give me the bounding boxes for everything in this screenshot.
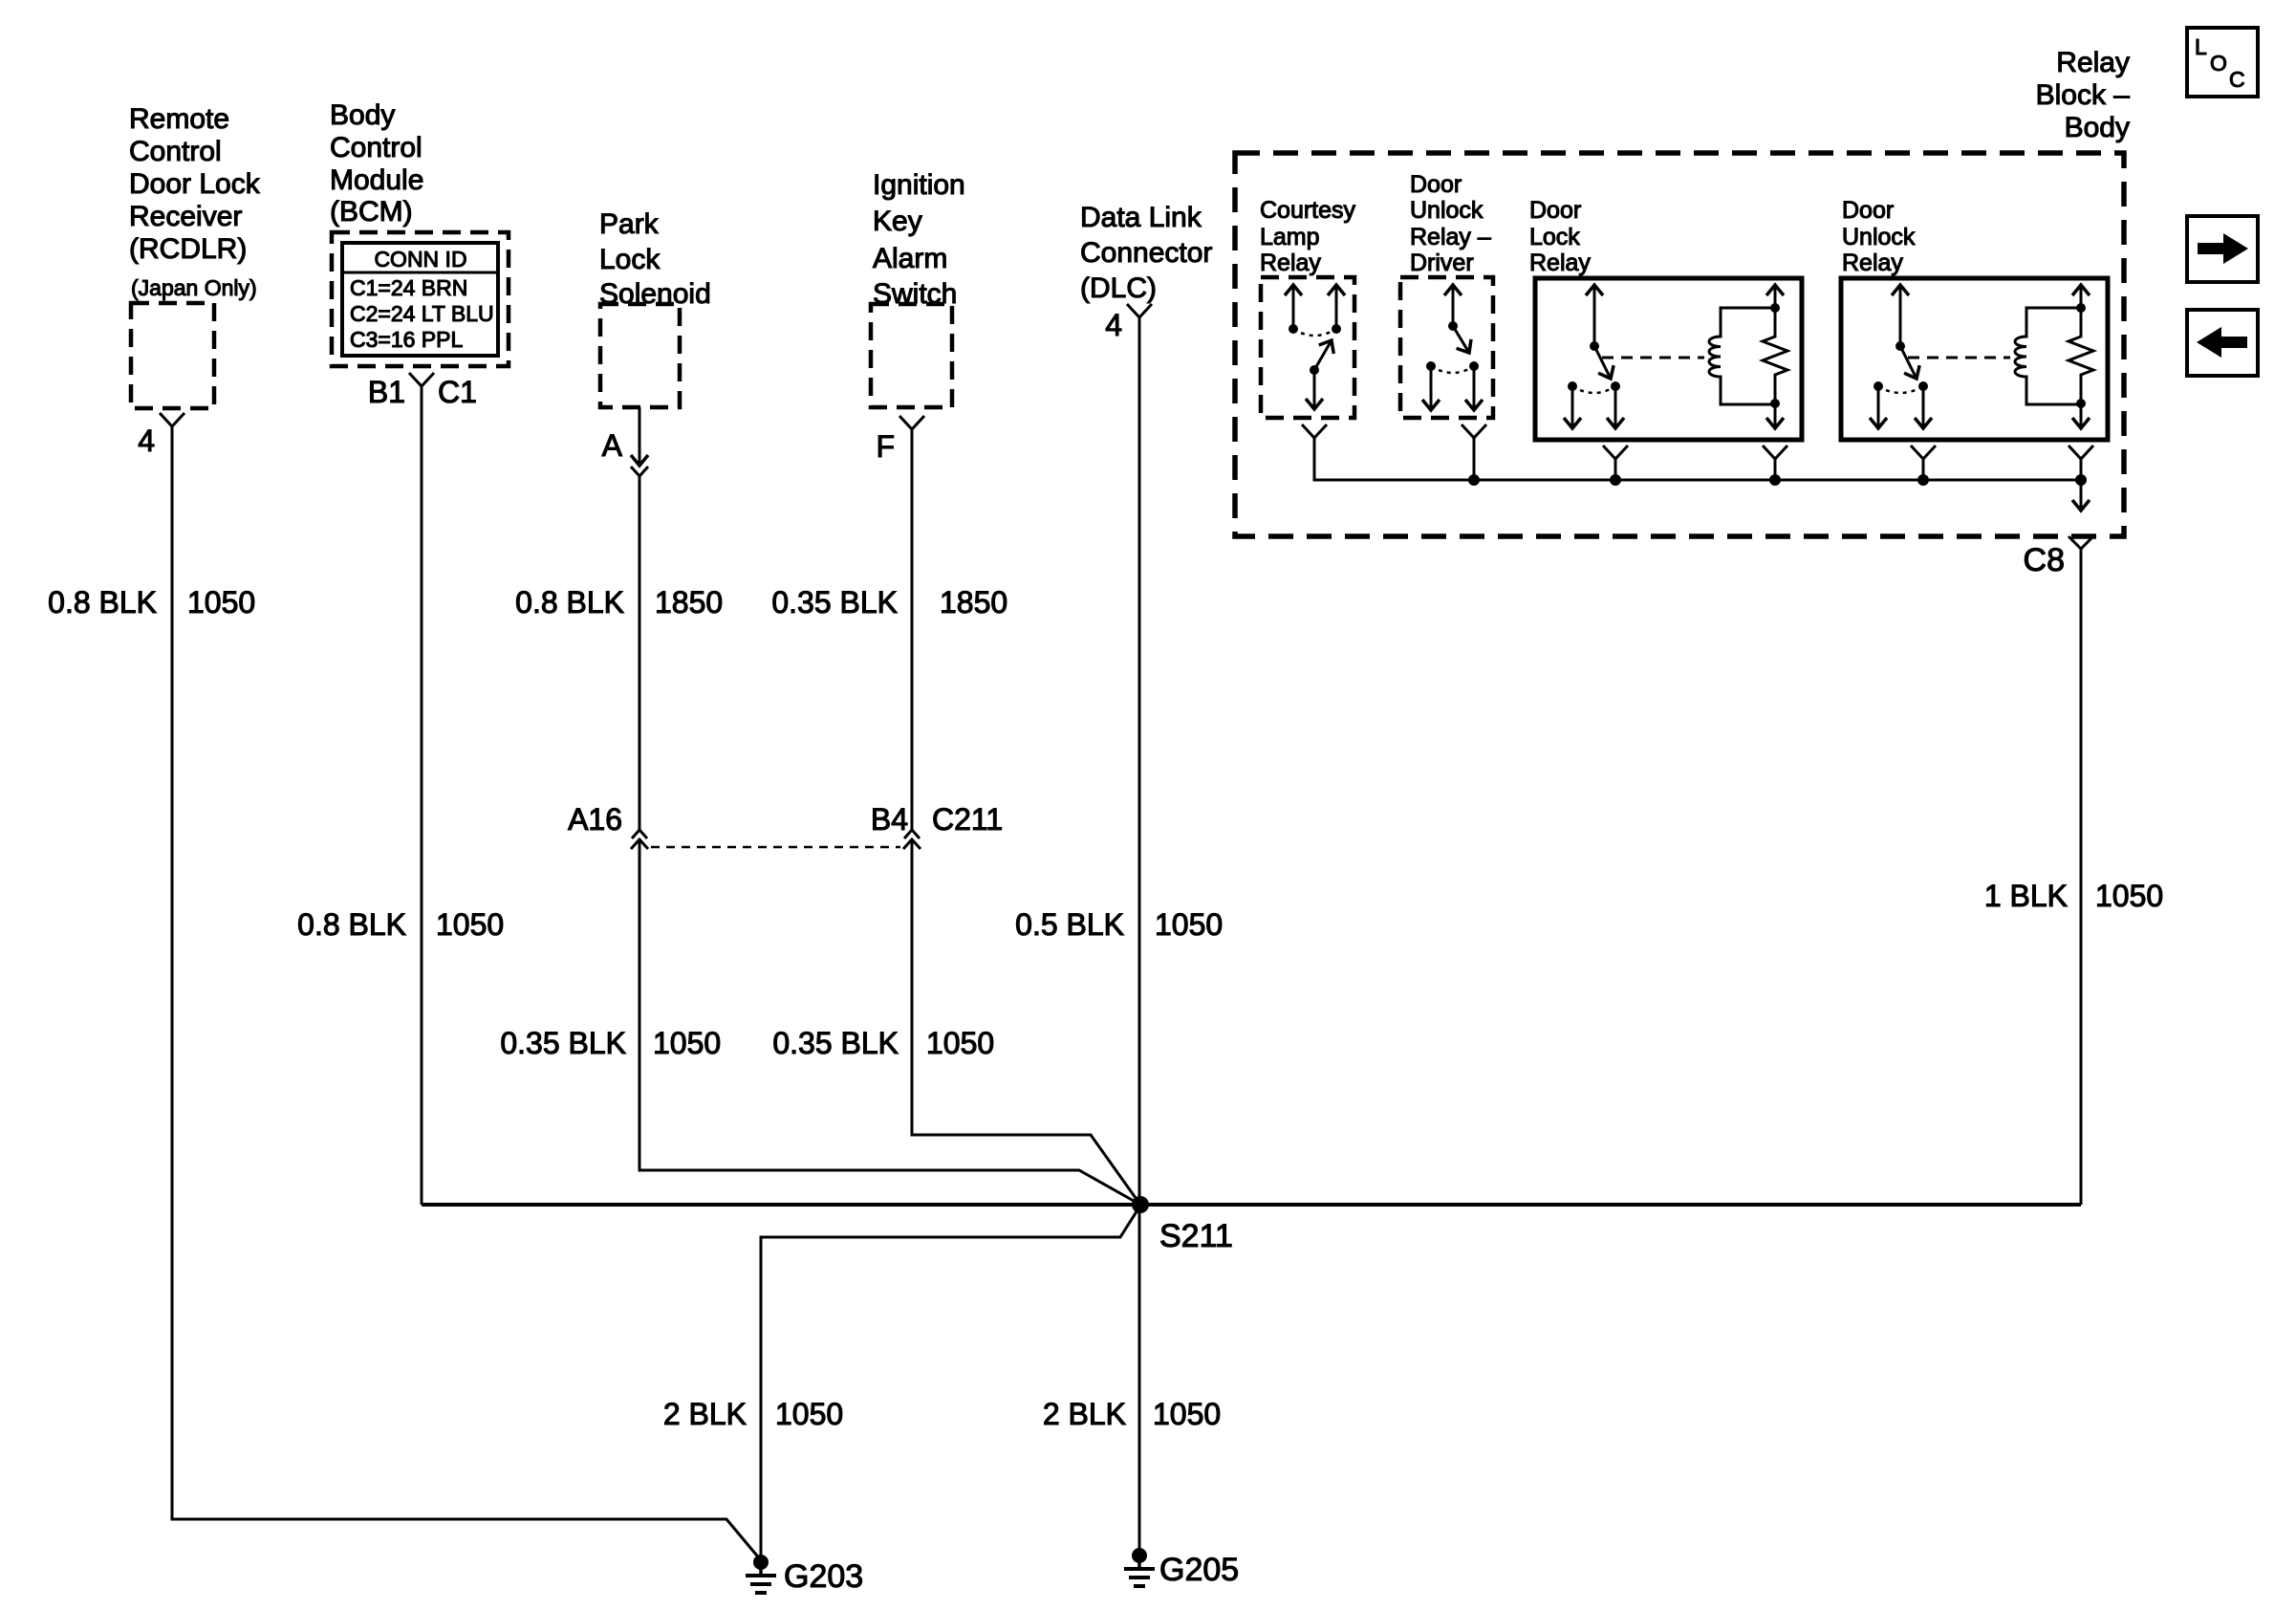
svg-text:Driver: Driver bbox=[1410, 250, 1474, 276]
svg-text:1050: 1050 bbox=[187, 585, 255, 620]
svg-text:1 BLK: 1 BLK bbox=[1984, 879, 2068, 913]
Unlock relay NC pin bbox=[1874, 381, 1883, 428]
RCDLR pin 4 connector bbox=[138, 413, 184, 458]
Unlock relay common contact bbox=[1895, 285, 1905, 351]
Lock relay NC pin bbox=[1568, 381, 1577, 428]
Courtesy Lamp Relay box bbox=[1261, 277, 1354, 418]
Ignition Key Alarm Switch label bbox=[873, 169, 965, 310]
wire label 2 BLK 1050 (G203) bbox=[663, 1397, 843, 1431]
Unlock relay coil suppression resistor bbox=[2069, 308, 2093, 403]
wire label 0.8 BLK 1850 (Park) bbox=[515, 585, 723, 620]
svg-text:Ignition: Ignition bbox=[873, 169, 965, 201]
svg-text:CONN ID: CONN ID bbox=[374, 247, 466, 272]
svg-text:C2=24 LT BLU: C2=24 LT BLU bbox=[350, 301, 494, 326]
Unlock relay coil ground pin bbox=[2080, 403, 2083, 428]
dashed pass-through link A16 to B4 bbox=[651, 846, 900, 849]
svg-text:1850: 1850 bbox=[940, 585, 1007, 620]
svg-text:1050: 1050 bbox=[1155, 907, 1223, 942]
Relay Block - Body dashed box bbox=[1235, 153, 2124, 536]
svg-text:B1: B1 bbox=[368, 375, 405, 409]
svg-text:Unlock: Unlock bbox=[1842, 224, 1916, 250]
svg-text:Relay: Relay bbox=[1842, 250, 1903, 276]
svg-text:Relay: Relay bbox=[2056, 47, 2130, 78]
Courtesy relay pin connector bbox=[1302, 424, 1327, 438]
splice S211 bbox=[1132, 1196, 1233, 1254]
Unlock relay coil bbox=[2015, 308, 2081, 404]
svg-text:(BCM): (BCM) bbox=[330, 196, 413, 228]
wire label 0.35 BLK 1850 (Ignition) bbox=[771, 585, 1007, 620]
svg-text:A: A bbox=[602, 428, 623, 463]
RCDLR connector box bbox=[131, 303, 214, 408]
Unlock relay coil bottom node bbox=[2076, 399, 2086, 408]
svg-text:1050: 1050 bbox=[436, 907, 504, 942]
legend arrow left box bbox=[2187, 310, 2258, 376]
svg-text:Block –: Block – bbox=[2036, 79, 2131, 111]
Lock relay common contact bbox=[1590, 285, 1599, 351]
Lock relay coil ground pin bbox=[1774, 403, 1777, 428]
svg-text:Lock: Lock bbox=[1529, 224, 1580, 250]
Lock relay coil top node bbox=[1770, 303, 1780, 313]
svg-text:G205: G205 bbox=[1159, 1552, 1239, 1588]
svg-text:C3=16 PPL: C3=16 PPL bbox=[350, 327, 463, 352]
svg-text:C211: C211 bbox=[932, 802, 1003, 837]
Unlock relay switch arm bbox=[1900, 346, 1917, 379]
Lock relay actuation dashed link bbox=[1602, 357, 1704, 359]
Ignition Key Alarm Switch box bbox=[871, 304, 952, 407]
svg-text:C1: C1 bbox=[438, 375, 477, 409]
Courtesy relay contact dashed arc bbox=[1293, 329, 1336, 336]
svg-text:0.35 BLK: 0.35 BLK bbox=[772, 1026, 899, 1060]
Door Unlock Relay - Driver box bbox=[1400, 277, 1493, 418]
Park Lock Solenoid box bbox=[600, 304, 680, 407]
svg-text:Key: Key bbox=[873, 206, 922, 237]
wire label 0.8 BLK 1050 (RCDLR) bbox=[48, 585, 255, 620]
svg-text:G203: G203 bbox=[784, 1558, 863, 1595]
ground G203 bbox=[746, 1555, 863, 1595]
Courtesy Lamp Relay label bbox=[1260, 197, 1356, 276]
relay bus exit arrow bbox=[2080, 480, 2083, 511]
wire S211 to G203 bbox=[761, 1206, 1140, 1558]
Data Link Connector label bbox=[1080, 202, 1212, 304]
in-line connector B4 / C211 bbox=[871, 802, 1003, 849]
Lock relay coil bottom node bbox=[1770, 399, 1780, 408]
Unlock relay coil supply pin bbox=[2080, 285, 2083, 308]
Courtesy relay switch arm bbox=[1310, 340, 1332, 375]
Driver relay NO pin bbox=[1469, 361, 1479, 410]
in-line connector A bbox=[602, 428, 648, 476]
svg-text:Courtesy: Courtesy bbox=[1260, 197, 1356, 224]
wire C8 to S211 bus bbox=[2080, 549, 2083, 1205]
Park Lock Solenoid label bbox=[599, 208, 711, 310]
Courtesy relay common pin bbox=[1313, 370, 1316, 409]
wire Park solenoid to connector A bbox=[639, 407, 641, 466]
svg-text:Door Lock: Door Lock bbox=[129, 168, 261, 200]
Unlock relay coil pin connector bbox=[2069, 446, 2093, 459]
svg-text:4: 4 bbox=[138, 424, 155, 458]
svg-text:0.8 BLK: 0.8 BLK bbox=[515, 585, 624, 620]
svg-text:Module: Module bbox=[330, 164, 423, 196]
wire A16 to S211 bbox=[639, 839, 1140, 1205]
wire A to A16 bbox=[639, 476, 641, 830]
Lock relay coil bbox=[1709, 308, 1775, 404]
Ignition pin F connector bbox=[876, 416, 924, 464]
svg-text:Alarm: Alarm bbox=[873, 243, 947, 274]
wire B4 to S211 bbox=[912, 839, 1140, 1205]
BCM pin B1/C1 connector bbox=[368, 373, 477, 409]
splice S211 bus bbox=[422, 1203, 2081, 1207]
DLC pin 4 connector bbox=[1105, 304, 1152, 342]
wire BCM to S211 bbox=[421, 386, 423, 1205]
Lock relay switch arm bbox=[1594, 346, 1611, 379]
svg-text:Door: Door bbox=[1410, 171, 1462, 198]
svg-text:4: 4 bbox=[1105, 308, 1122, 342]
RCDLR label bbox=[129, 103, 261, 300]
Relay Block - Body label bbox=[2036, 47, 2131, 143]
svg-text:0.35 BLK: 0.35 BLK bbox=[771, 585, 898, 620]
svg-text:C1=24 BRN: C1=24 BRN bbox=[350, 275, 467, 300]
svg-text:Relay: Relay bbox=[1529, 250, 1591, 276]
svg-text:1050: 1050 bbox=[926, 1026, 994, 1060]
svg-text:1050: 1050 bbox=[775, 1397, 843, 1431]
wire label 0.5 BLK 1050 (DLC) bbox=[1015, 907, 1223, 942]
svg-text:Body: Body bbox=[2065, 112, 2130, 143]
svg-text:Data Link: Data Link bbox=[1080, 202, 1202, 233]
svg-text:F: F bbox=[876, 429, 895, 464]
Lock relay contact dashed arc bbox=[1572, 386, 1615, 393]
svg-text:Receiver: Receiver bbox=[129, 201, 242, 232]
wire F to B4 bbox=[911, 429, 914, 830]
Door Unlock Relay box bbox=[1841, 278, 2108, 440]
wire label 0.35 BLK 1050 (Ignition lower) bbox=[772, 1026, 994, 1060]
legend arrow right box bbox=[2187, 216, 2258, 282]
junction dot (unlock relay switch) bbox=[1917, 474, 1929, 486]
svg-text:(DLC): (DLC) bbox=[1080, 272, 1157, 304]
relay block internal ground bus bbox=[1314, 438, 2081, 480]
wire DLC through S211 to G205 bbox=[1138, 317, 1141, 1556]
Unlock relay contact dashed arc bbox=[1878, 386, 1923, 393]
svg-text:0.8 BLK: 0.8 BLK bbox=[297, 907, 406, 942]
Door Unlock Relay label bbox=[1842, 197, 1916, 276]
Unlock relay switch pin connector bbox=[1911, 446, 1936, 459]
svg-text:2 BLK: 2 BLK bbox=[1043, 1397, 1126, 1431]
ground G205 bbox=[1124, 1548, 1239, 1588]
svg-text:B4: B4 bbox=[871, 802, 908, 837]
svg-text:(RCDLR): (RCDLR) bbox=[129, 233, 247, 265]
Door Lock Relay label bbox=[1529, 197, 1591, 276]
Unlock relay NO pin bbox=[1918, 381, 1928, 428]
BCM label bbox=[330, 99, 423, 228]
svg-text:Door: Door bbox=[1842, 197, 1894, 224]
svg-text:Connector: Connector bbox=[1080, 237, 1212, 269]
Driver relay NC pin bbox=[1426, 361, 1436, 410]
svg-text:2 BLK: 2 BLK bbox=[663, 1397, 747, 1431]
wire label 0.35 BLK 1050 (Park lower) bbox=[500, 1026, 721, 1060]
svg-text:O: O bbox=[2210, 51, 2227, 76]
Courtesy relay NC contact bbox=[1289, 285, 1298, 334]
junction dot (lock relay coil) bbox=[1769, 474, 1781, 486]
wire label 0.8 BLK 1050 (BCM) bbox=[297, 907, 504, 942]
svg-text:C8: C8 bbox=[2024, 542, 2065, 578]
svg-text:Body: Body bbox=[330, 99, 395, 131]
in-line connector C8 bbox=[2024, 536, 2093, 578]
BCM CONN ID table bbox=[342, 243, 498, 356]
svg-text:1050: 1050 bbox=[2095, 879, 2163, 913]
svg-text:Relay –: Relay – bbox=[1410, 224, 1491, 250]
svg-text:Lock: Lock bbox=[599, 244, 661, 275]
svg-text:0.8 BLK: 0.8 BLK bbox=[48, 585, 157, 620]
svg-text:1850: 1850 bbox=[655, 585, 723, 620]
junction dot (lock relay switch) bbox=[1610, 474, 1621, 486]
svg-text:0.35 BLK: 0.35 BLK bbox=[500, 1026, 626, 1060]
svg-text:L: L bbox=[2195, 34, 2207, 59]
Lock relay coil pin connector bbox=[1763, 446, 1787, 459]
Unlock relay coil top node bbox=[2076, 303, 2086, 313]
svg-text:1050: 1050 bbox=[653, 1026, 721, 1060]
Unlock relay actuation dashed link bbox=[1908, 357, 2010, 359]
Lock relay coil supply pin bbox=[1774, 285, 1777, 308]
svg-text:Relay: Relay bbox=[1260, 250, 1321, 276]
svg-text:0.5 BLK: 0.5 BLK bbox=[1015, 907, 1124, 942]
svg-text:A16: A16 bbox=[568, 802, 622, 837]
in-line connector A16 bbox=[568, 802, 648, 849]
Driver relay switch arm bbox=[1453, 326, 1469, 353]
BCM connector box bbox=[332, 232, 509, 366]
Lock relay switch pin connector bbox=[1603, 446, 1628, 459]
Driver relay pin connector bbox=[1462, 424, 1486, 438]
svg-text:Door: Door bbox=[1529, 197, 1581, 224]
wire RCDLR pin4 to G203 bbox=[172, 426, 761, 1560]
Driver relay common contact bbox=[1448, 285, 1458, 331]
svg-text:(Japan Only): (Japan Only) bbox=[131, 275, 257, 300]
wire label 2 BLK 1050 (G205) bbox=[1043, 1397, 1221, 1431]
Door Lock Relay box bbox=[1535, 278, 1802, 440]
svg-text:1050: 1050 bbox=[1153, 1397, 1221, 1431]
svg-text:Remote: Remote bbox=[129, 103, 229, 135]
svg-text:C: C bbox=[2229, 67, 2245, 92]
Lock relay NO pin bbox=[1611, 381, 1620, 428]
wire label 1 BLK 1050 bbox=[1984, 879, 2163, 913]
junction dot (bus corner) bbox=[2075, 474, 2087, 486]
LOC legend box bbox=[2187, 28, 2258, 97]
svg-text:Unlock: Unlock bbox=[1410, 197, 1484, 224]
Lock relay coil suppression resistor bbox=[1763, 308, 1787, 403]
svg-text:Lamp: Lamp bbox=[1260, 224, 1320, 250]
junction dot (driver relay) bbox=[1468, 474, 1480, 486]
Door Unlock Relay - Driver label bbox=[1410, 171, 1491, 276]
Driver relay contact dashed arc bbox=[1431, 366, 1474, 373]
svg-text:Control: Control bbox=[129, 136, 222, 167]
svg-text:S211: S211 bbox=[1159, 1218, 1233, 1254]
svg-text:Control: Control bbox=[330, 132, 422, 163]
svg-text:Park: Park bbox=[599, 208, 660, 240]
Courtesy relay NO contact bbox=[1332, 285, 1341, 334]
